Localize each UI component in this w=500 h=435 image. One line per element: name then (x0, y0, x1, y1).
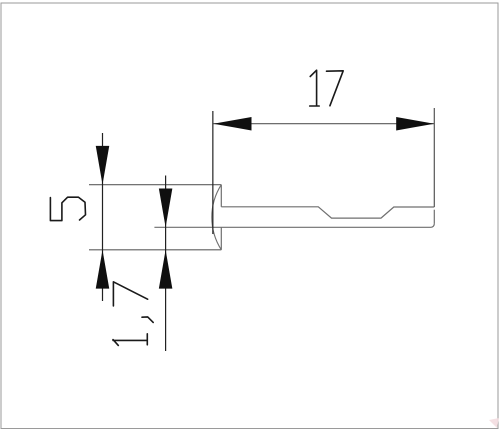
shank bottom line with extension to left and rounded right corner (154, 224, 434, 228)
text 5 (rotated) (50, 197, 85, 220)
text 17 digit 7 (327, 71, 344, 106)
shank top line with notch (221, 207, 434, 218)
dim 1,7 bottom arrow (159, 250, 173, 289)
head bottom line (also extension line for dim 5 and 1,7) (89, 249, 221, 251)
dim 1,7 dimension line (165, 176, 167, 352)
head right face upper segment (220, 185, 222, 207)
faint watermark speck bottom-right (489, 418, 499, 428)
dim 5 dimension line (102, 133, 104, 301)
dim 17 left extension line (212, 111, 214, 234)
dim 17 right arrow (396, 117, 434, 131)
text 1,7 comma (rotated) (142, 317, 153, 323)
head dome arc (212, 185, 222, 250)
dim 5 top arrow (96, 146, 110, 185)
dim 17 left arrow (213, 117, 251, 131)
text 17 digit 1 (310, 70, 320, 106)
text 1,7 digit 7 (rotated) (113, 282, 147, 306)
dim 5 bottom arrow (96, 250, 110, 289)
head right face lower segment (220, 227, 222, 250)
head top line (also extension line for dim 5) (89, 184, 221, 186)
dim 17 right extension line (433, 108, 435, 207)
shank right face (433, 210, 435, 224)
dim 17 dimension line (214, 123, 435, 125)
dim 1,7 top arrow (159, 189, 173, 228)
text 1,7 digit 1 (rotated) (113, 334, 147, 346)
